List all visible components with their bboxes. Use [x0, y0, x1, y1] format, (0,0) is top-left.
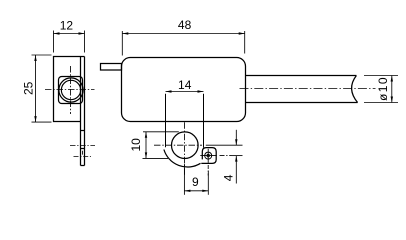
dim 10 line [145, 132, 147, 159]
dim 4 bottom ref line [232, 155, 243, 157]
right view: small circle inner dot [207, 154, 210, 157]
dim 48 ext left [121, 31, 123, 56]
dim 10 ext top [143, 131, 179, 133]
dim 12 line [54, 33, 85, 35]
right view: cable tab [101, 64, 122, 71]
dim 4 bottom shaft [235, 156, 237, 184]
arrow dim12 left [54, 32, 60, 34]
arrow dim25 bottom [34, 116, 36, 122]
arrow dim14 right [198, 90, 204, 92]
dim 12 ext right [84, 31, 86, 53]
arrow dim25 top [34, 55, 36, 61]
dim 4 top shaft [235, 130, 237, 145]
svg-text:12: 12 [60, 18, 74, 32]
right view: big circle pin [172, 132, 199, 159]
dim 25 line [35, 55, 37, 122]
right view: small circle pin [205, 152, 212, 159]
dim 4 top ref line [206, 144, 243, 146]
left view: inner circle [61, 80, 80, 99]
right view: hook arc [164, 150, 201, 168]
right view: boss right edge / 14 ext [203, 94, 205, 148]
dim 9 line [184, 190, 208, 192]
big circle horizontal centerline [154, 144, 202, 146]
right view: rod break curve [352, 76, 358, 103]
arrow dim10 top [145, 132, 147, 138]
left view: strip tick lug top [81, 148, 85, 150]
left view: vertical centerline [70, 66, 72, 114]
left view: strip centerline small pin [74, 156, 92, 158]
dim 48 line [122, 33, 244, 35]
dim o10 line [391, 76, 393, 103]
dim 25 ext top [32, 54, 52, 56]
arrow o10 bottom [391, 97, 393, 103]
small circle vertical crosshair [207, 149, 209, 163]
left view: strip pin mark [82, 151, 84, 155]
small circle horizontal centerline extension [220, 155, 232, 157]
dim 10 ext bottom [143, 157, 169, 159]
arrow dim9 left [184, 190, 190, 192]
dim 12 ext left [53, 31, 55, 53]
svg-text:10: 10 [129, 138, 143, 152]
left view: strip tick boss top [81, 130, 85, 132]
arrow dim48 left [122, 32, 128, 34]
svg-text:25: 25 [21, 81, 35, 95]
svg-text:ø10: ø10 [376, 76, 390, 101]
arrow dim12 right [79, 32, 85, 34]
arrow dim9 right [202, 190, 208, 192]
svg-text:4: 4 [221, 174, 235, 181]
dim o10 ext bottom [364, 102, 398, 104]
right view: rod bottom edge [246, 102, 358, 104]
arrow dim48 right [239, 32, 245, 34]
dim o10 ext top [364, 75, 398, 77]
dim 9 ext right [207, 171, 209, 195]
svg-text:9: 9 [192, 175, 199, 189]
small circle vertical centerline extension [207, 165, 209, 176]
left view: flange strip bottom cap [81, 165, 85, 167]
right view: body rounded rectangle [122, 58, 246, 122]
big circle vertical centerline [184, 122, 186, 176]
dim 25 ext bottom [32, 121, 52, 123]
dim 9 ext left [183, 164, 185, 195]
arrow dim14 left [166, 90, 172, 92]
svg-text:14: 14 [178, 78, 192, 92]
right view: boss left edge / 14 ext [165, 94, 167, 148]
left view: horizontal centerline [45, 89, 95, 91]
left view: strip centerline pin [70, 145, 95, 147]
left view: outer circle [59, 78, 83, 102]
arrow dim10 bottom [145, 152, 147, 158]
left view: rounded square boss [59, 77, 83, 104]
left view: flange strip outer edge [84, 57, 86, 166]
right view: lug outline [201, 148, 216, 164]
rod centerline [240, 88, 376, 90]
arrow dim4 up [235, 156, 237, 162]
arrow o10 top [391, 76, 393, 82]
dim 14 line [166, 91, 204, 93]
right view: rod top edge [246, 75, 357, 77]
svg-text:48: 48 [178, 18, 192, 32]
small circle horizontal crosshair [200, 155, 217, 157]
left view: bracket plate outline [54, 57, 85, 122]
dim 48 ext right [244, 31, 246, 54]
arrow dim4 down [235, 139, 237, 145]
left view: flange strip inner edge [80, 57, 82, 166]
